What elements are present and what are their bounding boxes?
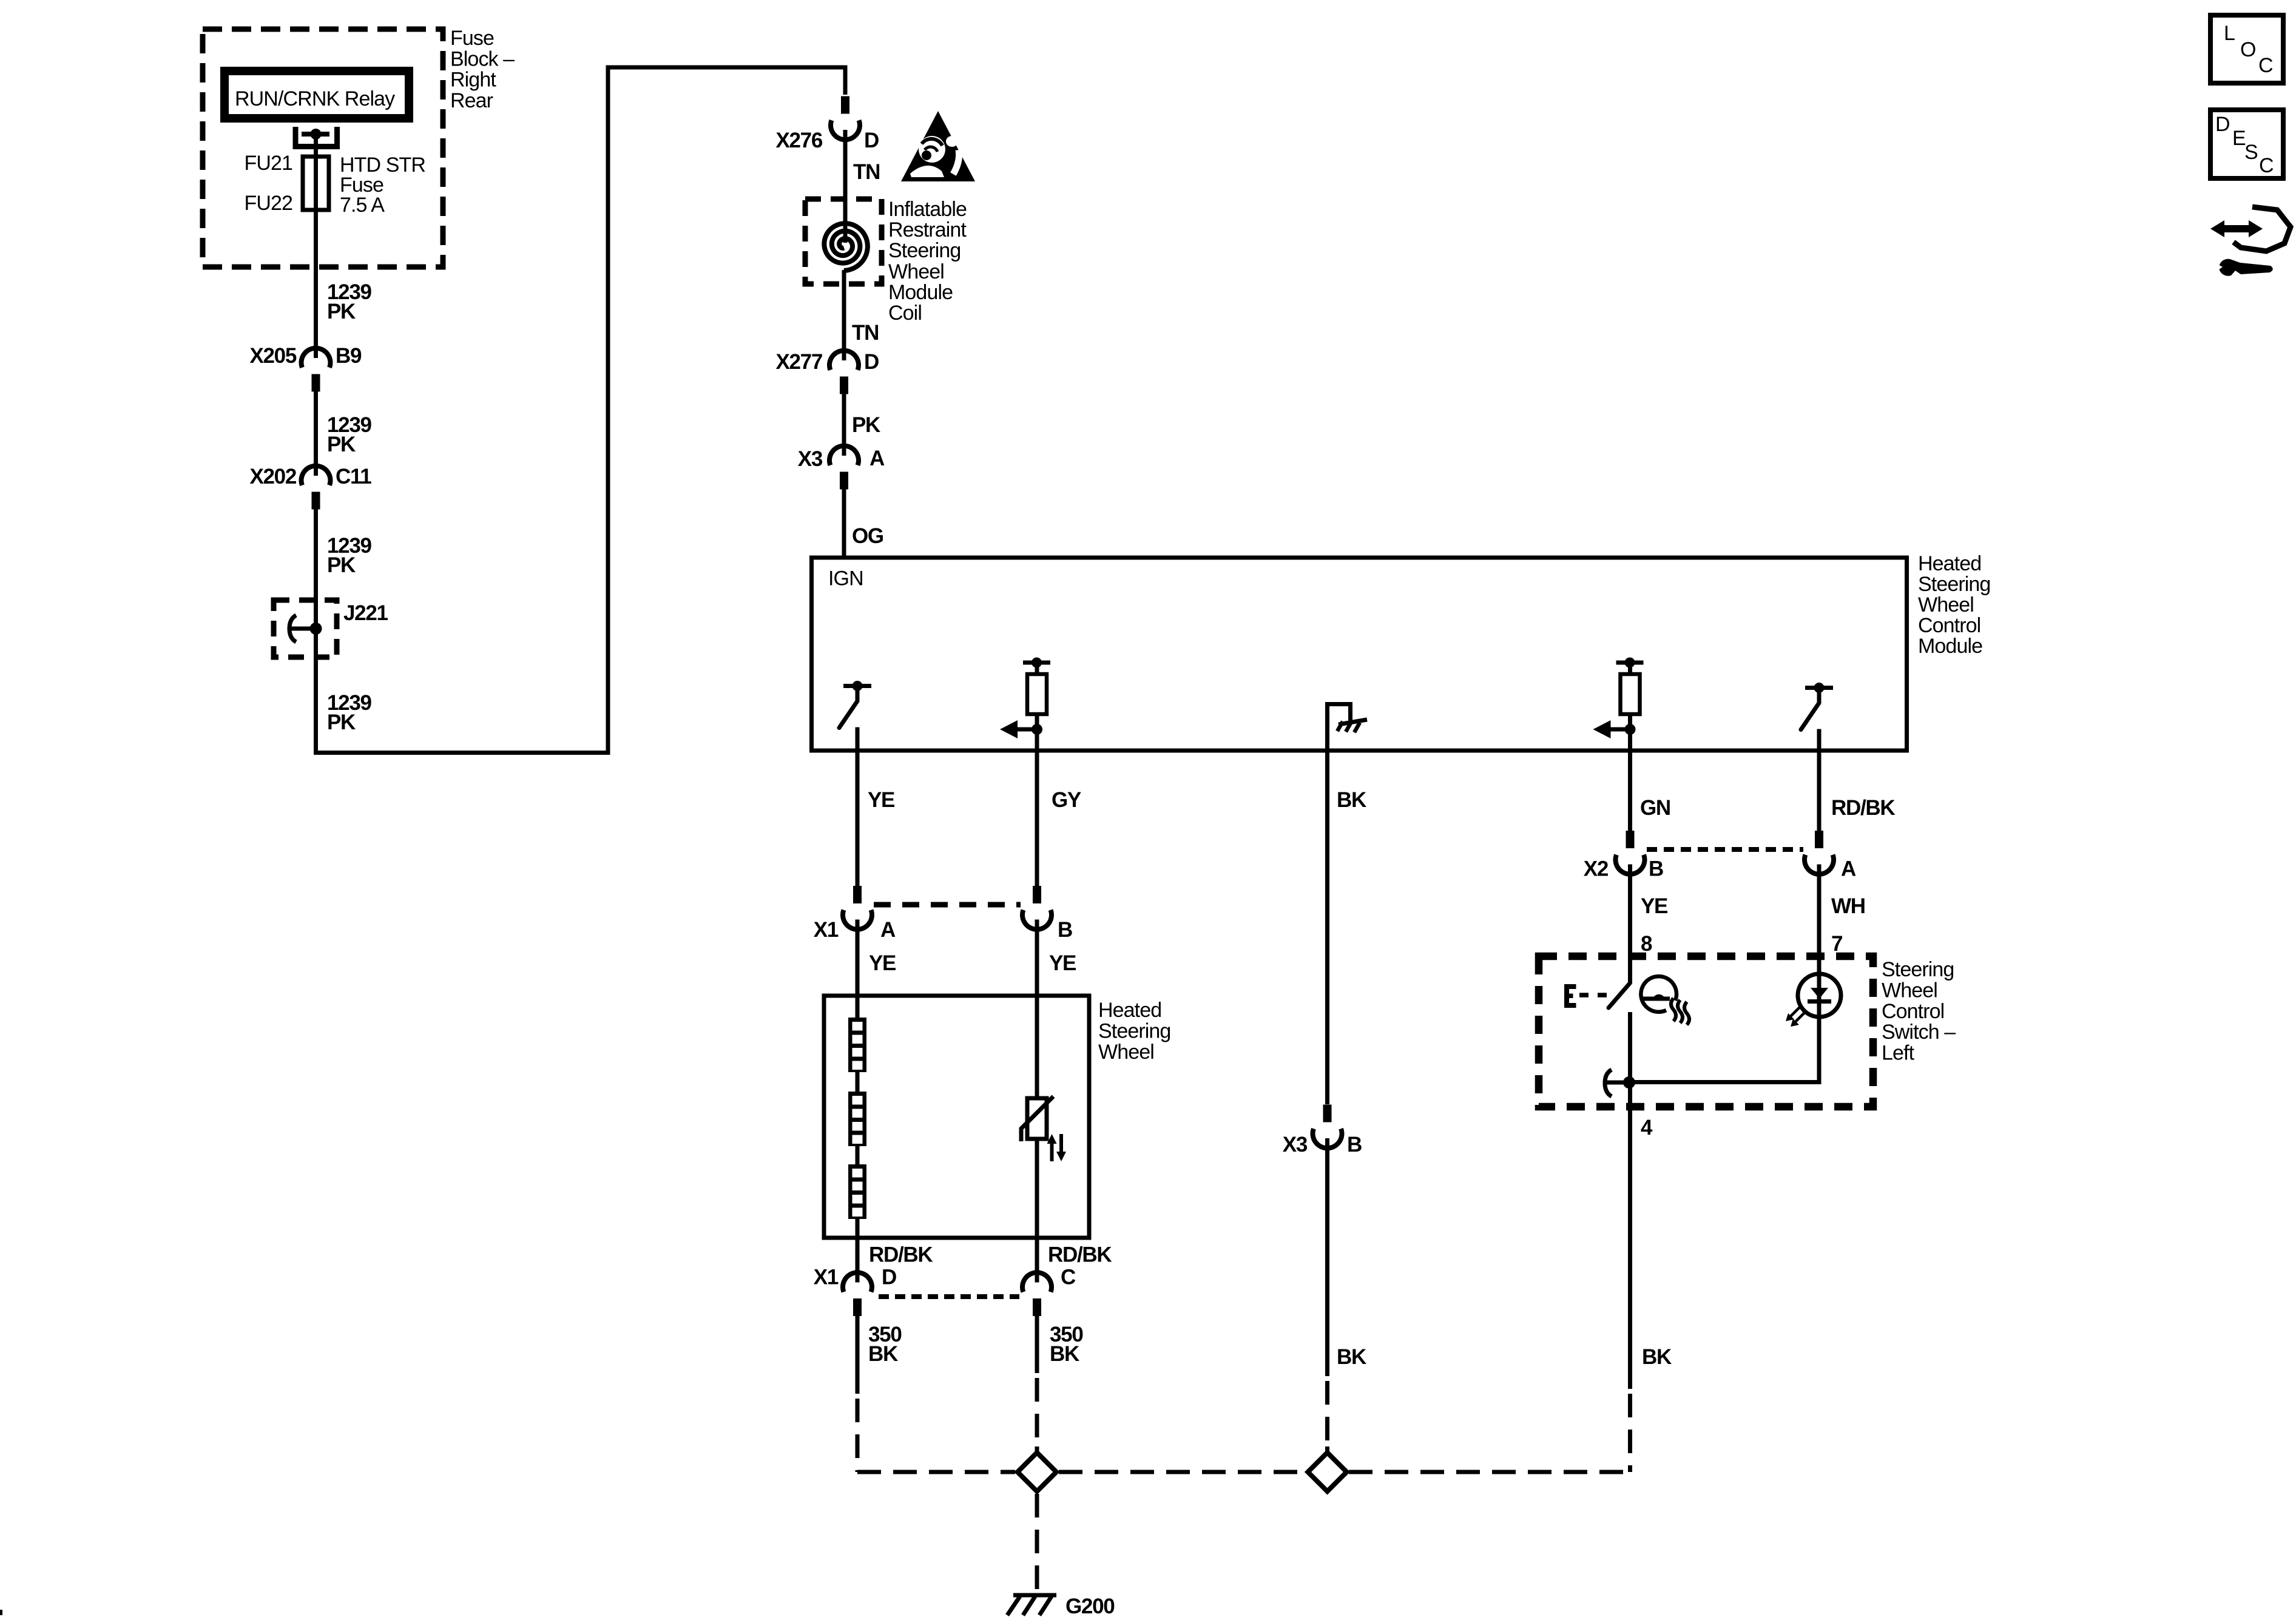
svg-text:PK: PK [852, 413, 880, 437]
relay K: RUN/CRNK Relay box [225, 71, 409, 118]
wire module to X3-B (BK) [1325, 751, 1329, 1104]
svg-text:Restraint: Restraint [888, 218, 967, 241]
svg-text:IGN: IGN [828, 567, 863, 590]
wire X205 to X202 (1239 PK) [314, 392, 318, 476]
svg-text:A: A [880, 918, 896, 942]
svg-text:TN: TN [852, 321, 879, 345]
svg-text:S: S [2244, 141, 2258, 164]
wire X1-B to thermistor (YE) [1035, 920, 1039, 1099]
ground splice (left diamond) [1018, 1453, 1056, 1491]
svg-text:X276: X276 [775, 129, 822, 152]
svg-text:C: C [1061, 1266, 1076, 1289]
module pin: heater feed switch [843, 684, 871, 688]
X2 harness dashed link [1647, 847, 1803, 852]
connector X1 pin A [843, 910, 872, 930]
temperature sensor (thermistor) [1027, 1098, 1047, 1139]
svg-text:RD/BK: RD/BK [869, 1243, 933, 1267]
node E dashed tie [1564, 984, 1569, 1008]
connector X3 pin B [1313, 1129, 1342, 1148]
wire module to X2-B (GN) [1628, 751, 1632, 832]
svg-text:GN: GN [1640, 796, 1670, 820]
wire fuse to X205 (1239 PK) [314, 210, 318, 358]
module pin: internal ground [1325, 702, 1329, 751]
svg-text:C: C [2259, 154, 2274, 177]
svg-text:X277: X277 [775, 350, 822, 374]
wire thermistor to X1-C (RD/BK) [1035, 1139, 1039, 1283]
heated steering wheel icon [1641, 976, 1676, 1012]
splice junction in switch [1605, 1070, 1612, 1096]
svg-text:Steering: Steering [1098, 1020, 1170, 1043]
svg-text:TN: TN [853, 160, 880, 184]
wire X2-A to LED (WH) pin 7 [1817, 865, 1822, 975]
svg-text:Rear: Rear [450, 89, 493, 112]
svg-text:Wheel: Wheel [1882, 979, 1937, 1002]
wire switch pin4 to ground bus (BK) [1628, 1107, 1632, 1389]
svg-text:YE: YE [1049, 951, 1076, 975]
svg-text:FU21: FU21 [244, 152, 292, 175]
svg-text:B: B [1058, 918, 1072, 942]
SIR caution symbol [901, 111, 975, 181]
wire X276 to coil (TN) [843, 130, 848, 243]
svg-text:Heated: Heated [1918, 552, 1981, 575]
svg-text:Wheel: Wheel [1918, 593, 1974, 616]
svg-text:PK: PK [327, 300, 356, 323]
fuse FU21/FU22 HTD STR Fuse 7.5 A [314, 159, 318, 210]
svg-text:BK: BK [1337, 788, 1366, 812]
svg-text:X1: X1 [814, 918, 839, 942]
DESC legend box [2210, 110, 2283, 178]
wire X1-C ground lead (350 BK) [1035, 1316, 1039, 1373]
svg-text:Inflatable: Inflatable [888, 198, 967, 221]
svg-text:YE: YE [868, 788, 894, 812]
svg-text:X1: X1 [814, 1266, 839, 1289]
svg-text:BK: BK [1050, 1342, 1079, 1366]
connector X277 pin D [829, 351, 859, 370]
svg-text:YE: YE [869, 951, 896, 975]
svg-text:GY: GY [1052, 788, 1081, 812]
wire X1-A to element (YE) [856, 920, 860, 1018]
svg-text:Steering: Steering [1882, 958, 1954, 981]
svg-text:B: B [1649, 857, 1663, 881]
wire coil to X277 (TN) [842, 270, 846, 360]
svg-text:PK: PK [327, 711, 356, 734]
svg-text:PK: PK [327, 433, 356, 456]
svg-text:Fuse: Fuse [450, 27, 494, 50]
connector X1 pin D [843, 1272, 872, 1292]
svg-text:Control: Control [1882, 1000, 1944, 1023]
connector X1 pin C [1022, 1272, 1052, 1292]
connector X205 pin B9 [301, 348, 330, 368]
connector X2 pin B [1616, 855, 1645, 874]
X1 harness dashed link [874, 902, 1021, 908]
svg-text:RD/BK: RD/BK [1831, 796, 1895, 820]
ground G200 [1013, 1593, 1056, 1598]
wire X202 to splice J221 (1239 PK) [314, 510, 318, 629]
svg-text:X202: X202 [249, 465, 296, 488]
wire X2-B to switch (YE) pin 8 [1628, 865, 1632, 984]
svg-text:Left: Left [1882, 1042, 1915, 1065]
wire relay to fuse FU21 [314, 134, 318, 159]
connector X276 pin D [831, 120, 860, 140]
wire X277 to X3 (PK) [842, 394, 846, 456]
svg-text:B9: B9 [336, 344, 362, 368]
svg-text:Module: Module [1918, 635, 1982, 658]
svg-text:PK: PK [327, 553, 356, 577]
wire splice to G200 [1035, 1494, 1039, 1592]
inflatable restraint steering wheel module coil [805, 199, 882, 284]
wire J221 to module IGN routing (1239 PK) [314, 629, 318, 753]
svg-text:4: 4 [1641, 1116, 1653, 1139]
svg-text:BK: BK [1642, 1345, 1672, 1369]
svg-text:D: D [864, 129, 879, 152]
page artifact speck [0, 1610, 2, 1615]
svg-text:G200: G200 [1065, 1595, 1115, 1617]
svg-text:Coil: Coil [888, 302, 922, 325]
svg-text:L: L [2224, 22, 2235, 45]
svg-text:X2: X2 [1584, 857, 1609, 881]
dashed ground bus [1059, 1470, 1306, 1474]
svg-text:8: 8 [1641, 932, 1652, 956]
indicator LED [1817, 974, 1822, 1019]
svg-text:J221: J221 [343, 601, 388, 625]
svg-text:X3: X3 [1283, 1133, 1308, 1156]
steering wheel control switch - left dashed box [1539, 956, 1873, 1107]
svg-text:BK: BK [868, 1342, 898, 1366]
svg-text:D: D [882, 1266, 896, 1289]
splice J221 [274, 600, 337, 657]
svg-text:FU22: FU22 [244, 192, 292, 215]
heated steering wheel box [824, 996, 1089, 1238]
svg-text:Wheel: Wheel [1098, 1041, 1154, 1064]
X1 bottom harness dashed link [879, 1294, 1019, 1299]
heated steering wheel control module box [812, 558, 1907, 751]
wire X3-B to ground splice (BK) [1325, 1138, 1329, 1376]
connector-view tool icon [2234, 207, 2291, 251]
svg-text:A: A [869, 447, 885, 470]
svg-text:Block –: Block – [450, 47, 515, 70]
wire X3 to module IGN (OG) [842, 490, 846, 558]
fuse block - right rear dashed enclosure [203, 29, 443, 267]
svg-text:X205: X205 [249, 344, 296, 368]
svg-text:7.5 A: 7.5 A [340, 194, 385, 217]
svg-text:Wheel: Wheel [888, 260, 944, 283]
svg-text:D: D [2215, 113, 2230, 136]
wire element to X1-D (RD/BK) [856, 1219, 860, 1283]
LOC legend box [2210, 15, 2283, 83]
svg-text:Right: Right [450, 69, 496, 92]
svg-text:YE: YE [1641, 894, 1667, 918]
svg-text:Steering: Steering [1918, 573, 1990, 596]
connector X1 pin B [1022, 910, 1052, 930]
connector X3 pin A [829, 446, 859, 465]
svg-text:Switch –: Switch – [1882, 1021, 1956, 1044]
svg-text:Steering: Steering [888, 239, 961, 262]
svg-text:Control: Control [1918, 614, 1980, 637]
wire module to X2-A (RD/BK) [1817, 751, 1822, 832]
module pin: switch signal [1805, 686, 1833, 690]
svg-text:E: E [2232, 127, 2246, 150]
svg-text:OG: OG [852, 524, 883, 548]
svg-text:C11: C11 [336, 465, 371, 488]
relay output clip terminal [295, 127, 337, 147]
wire X1-D ground lead (350 BK) [856, 1316, 860, 1394]
svg-text:A: A [1841, 857, 1856, 881]
heater element segments [848, 1018, 866, 1072]
LED branch wire to junction [1817, 1017, 1822, 1080]
svg-text:RD/BK: RD/BK [1048, 1243, 1112, 1267]
wire module to X1-A (YE) [856, 751, 860, 887]
svg-text:WH: WH [1831, 894, 1865, 918]
svg-text:RUN/CRNK Relay: RUN/CRNK Relay [235, 87, 395, 110]
svg-text:O: O [2240, 38, 2256, 61]
ground splice (right diamond) [1308, 1453, 1347, 1491]
module pin: sensor feed resistor [1023, 661, 1050, 665]
svg-text:D: D [864, 350, 879, 374]
connector X202 pin C11 [301, 466, 330, 485]
heater switch contact [1609, 983, 1630, 1008]
svg-text:BK: BK [1337, 1345, 1366, 1369]
svg-text:B: B [1347, 1133, 1362, 1156]
module pin: indicator resistor [1616, 661, 1644, 665]
svg-text:7: 7 [1831, 932, 1842, 956]
svg-text:C: C [2258, 54, 2273, 77]
connector X2 pin A [1805, 855, 1834, 874]
svg-text:X3: X3 [798, 447, 823, 471]
wire module to X1-B (GY) [1035, 751, 1039, 887]
svg-text:Heated: Heated [1098, 999, 1161, 1022]
svg-text:Module: Module [888, 281, 953, 304]
